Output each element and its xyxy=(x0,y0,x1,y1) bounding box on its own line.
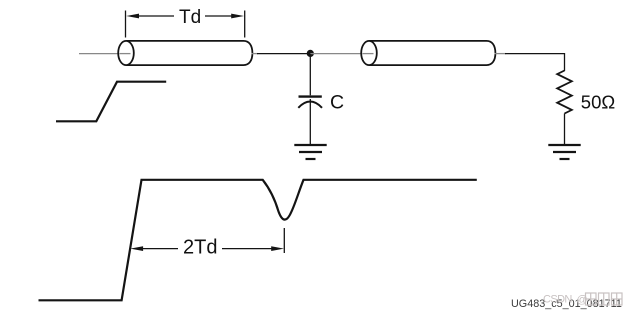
dimension 2Td xyxy=(142,228,284,253)
ground xyxy=(294,145,326,159)
svg-text:CSDN: CSDN xyxy=(543,294,572,306)
svg-text:2Td: 2Td xyxy=(183,237,217,259)
transmission line TL1 xyxy=(118,41,252,65)
wire xyxy=(564,114,566,145)
dimension Td xyxy=(126,11,245,38)
wire xyxy=(257,53,310,55)
wire xyxy=(309,99,311,145)
wire xyxy=(505,54,565,71)
svg-text:Td: Td xyxy=(179,7,201,28)
svg-text:50Ω: 50Ω xyxy=(581,91,616,112)
ground xyxy=(548,145,580,159)
wire xyxy=(310,53,369,55)
wire xyxy=(495,53,507,55)
capacitor C1 xyxy=(298,97,322,108)
waveform input xyxy=(56,82,166,122)
transmission line TL2 xyxy=(361,41,495,65)
wire xyxy=(79,53,126,55)
svg-text:C: C xyxy=(330,92,344,114)
waveform output xyxy=(39,180,477,300)
wire xyxy=(309,54,311,96)
wire xyxy=(252,53,259,55)
node junction xyxy=(307,50,314,57)
resistor R1 xyxy=(557,71,572,114)
